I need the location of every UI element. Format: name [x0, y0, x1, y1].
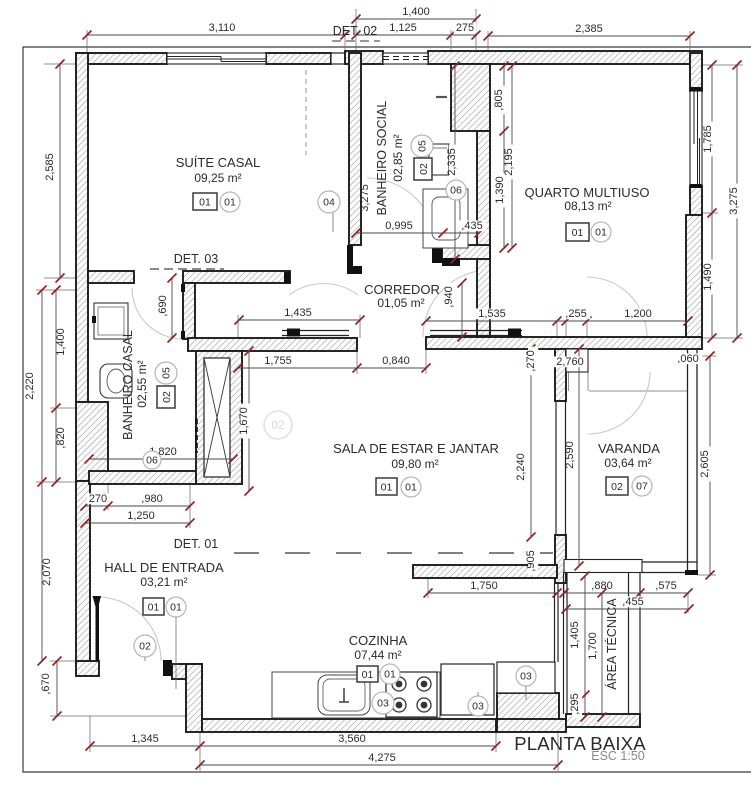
svg-text:03: 03 [472, 701, 484, 713]
svg-text:,060: ,060 [677, 353, 698, 365]
svg-text:3,110: 3,110 [209, 22, 236, 34]
svg-text:03: 03 [377, 698, 389, 710]
svg-text:2,335: 2,335 [446, 148, 458, 176]
svg-text:01: 01 [148, 601, 160, 613]
svg-text:02,85 m²: 02,85 m² [391, 134, 405, 181]
svg-text:1,405: 1,405 [569, 621, 581, 649]
svg-text:3,275: 3,275 [359, 184, 371, 212]
svg-text:,980: ,980 [141, 493, 162, 505]
svg-text:1,700: 1,700 [587, 632, 599, 660]
svg-text:1,200: 1,200 [624, 308, 652, 320]
svg-text:02,55 m²: 02,55 m² [135, 360, 149, 407]
svg-text:1,400: 1,400 [55, 328, 67, 356]
svg-text:01: 01 [381, 481, 393, 493]
svg-text:01: 01 [572, 227, 584, 239]
svg-text:05: 05 [417, 140, 429, 152]
svg-text:02: 02 [611, 481, 623, 493]
svg-text:01: 01 [199, 196, 211, 208]
svg-text:2,760: 2,760 [556, 356, 584, 368]
svg-text:SALA DE ESTAR E JANTAR: SALA DE ESTAR E JANTAR [333, 441, 499, 456]
svg-text:4,275: 4,275 [368, 752, 396, 764]
svg-text:270: 270 [89, 493, 107, 505]
svg-text:,575: ,575 [655, 580, 676, 592]
svg-text:2,070: 2,070 [41, 558, 53, 586]
svg-text:,295: ,295 [569, 693, 581, 714]
svg-text:BANHEIRO SOCIAL: BANHEIRO SOCIAL [375, 101, 389, 216]
svg-text:01: 01 [405, 482, 417, 494]
svg-text:ESC 1:50: ESC 1:50 [591, 749, 645, 763]
svg-text:,435: ,435 [461, 220, 482, 232]
svg-text:2,385: 2,385 [575, 23, 603, 35]
svg-text:2,220: 2,220 [24, 372, 36, 400]
svg-text:DET. 03: DET. 03 [174, 252, 219, 266]
svg-text:1,750: 1,750 [470, 580, 498, 592]
svg-text:,905: ,905 [525, 550, 537, 571]
svg-text:QUARTO MULTIUSO: QUARTO MULTIUSO [525, 185, 650, 200]
svg-text:CORREDOR: CORREDOR [364, 282, 440, 297]
svg-text:02: 02 [139, 641, 151, 653]
svg-text:HALL DE ENTRADA: HALL DE ENTRADA [104, 560, 224, 575]
svg-text:03,64 m²: 03,64 m² [604, 456, 651, 470]
svg-text:275: 275 [456, 22, 474, 34]
svg-text:1,345: 1,345 [131, 733, 159, 745]
svg-text:COZINHA: COZINHA [349, 633, 408, 648]
svg-text:1,670: 1,670 [238, 407, 250, 435]
svg-text:09,25 m²: 09,25 m² [194, 171, 241, 185]
svg-text:2,240: 2,240 [515, 453, 527, 481]
svg-text:06: 06 [450, 185, 462, 197]
svg-text:,455: ,455 [622, 596, 643, 608]
svg-text:DET. 02: DET. 02 [333, 24, 378, 38]
svg-text:1,535: 1,535 [478, 308, 506, 320]
svg-text:1,400: 1,400 [402, 6, 430, 18]
svg-text:1,250: 1,250 [127, 510, 155, 522]
svg-text:0,840: 0,840 [382, 355, 410, 367]
svg-text:04: 04 [323, 197, 335, 209]
svg-text:07: 07 [636, 481, 648, 493]
svg-text:01: 01 [170, 602, 182, 614]
svg-text:01: 01 [362, 669, 374, 681]
svg-text:SUÍTE CASAL: SUÍTE CASAL [176, 155, 261, 170]
svg-text:,805: ,805 [493, 89, 505, 110]
svg-text:2,195: 2,195 [503, 148, 515, 176]
svg-text:05: 05 [161, 367, 173, 379]
svg-text:,880: ,880 [591, 580, 612, 592]
svg-text:3,275: 3,275 [728, 187, 740, 215]
svg-text:02: 02 [161, 391, 173, 403]
svg-text:0,995: 0,995 [385, 220, 413, 232]
svg-text:2,605: 2,605 [699, 450, 711, 478]
svg-text:VARANDA: VARANDA [598, 441, 660, 456]
svg-text:2,585: 2,585 [44, 153, 56, 181]
svg-text:,820: ,820 [55, 427, 67, 448]
svg-text:03: 03 [520, 671, 532, 683]
svg-text:1,490: 1,490 [702, 263, 714, 291]
svg-text:1,390: 1,390 [494, 176, 506, 204]
svg-text:01: 01 [384, 669, 396, 681]
svg-text:2,590: 2,590 [564, 441, 576, 469]
svg-text:1,435: 1,435 [284, 307, 312, 319]
svg-text:1,785: 1,785 [702, 125, 714, 153]
svg-text:02: 02 [418, 163, 430, 175]
svg-text:ÁREA TÉCNICA: ÁREA TÉCNICA [604, 598, 619, 690]
svg-text:1,755: 1,755 [264, 355, 292, 367]
svg-text:01: 01 [224, 197, 236, 209]
svg-text:,255: ,255 [565, 308, 586, 320]
svg-text:02: 02 [271, 418, 285, 432]
svg-text:01,05 m²: 01,05 m² [377, 296, 424, 310]
svg-text:08,13 m²: 08,13 m² [564, 199, 611, 213]
svg-text:DET. 01: DET. 01 [174, 537, 219, 551]
svg-text:3,560: 3,560 [338, 733, 366, 745]
svg-text:06: 06 [146, 455, 158, 467]
svg-text:1,125: 1,125 [389, 22, 417, 34]
svg-text:,690: ,690 [157, 295, 169, 316]
svg-text:BANHEIRO CASAL: BANHEIRO CASAL [121, 330, 135, 440]
svg-text:,940: ,940 [443, 286, 455, 307]
svg-text:07,44 m²: 07,44 m² [354, 648, 401, 662]
svg-text:09,80 m²: 09,80 m² [391, 457, 438, 471]
svg-text:03,21 m²: 03,21 m² [140, 575, 187, 589]
svg-text:,270: ,270 [525, 350, 537, 371]
svg-text:01: 01 [595, 227, 607, 239]
svg-text:,670: ,670 [40, 673, 52, 694]
